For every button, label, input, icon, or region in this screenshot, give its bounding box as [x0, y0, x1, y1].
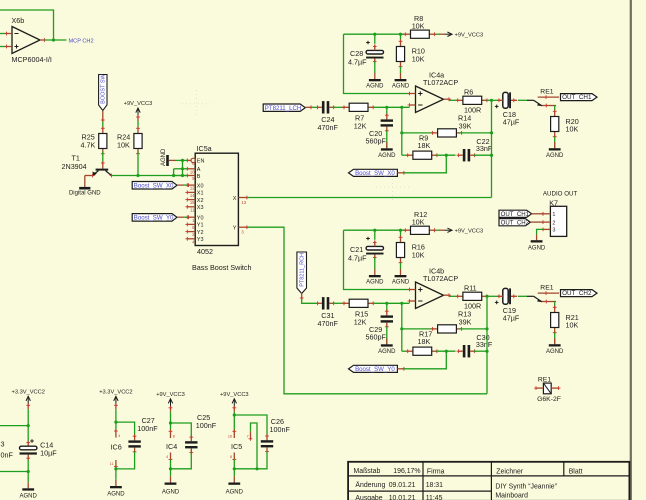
svg-text:560pF: 560pF — [366, 136, 387, 145]
svg-text:10µF: 10µF — [40, 448, 57, 457]
svg-text:10: 10 — [190, 169, 195, 174]
svg-text:Y3: Y3 — [197, 237, 204, 243]
svg-text:AGND: AGND — [378, 349, 396, 355]
svg-text:AGND: AGND — [107, 491, 125, 497]
svg-text:X1: X1 — [197, 191, 204, 197]
svg-text:100nF: 100nF — [137, 424, 158, 433]
svg-text:15: 15 — [190, 200, 195, 205]
svg-text:Y: Y — [233, 226, 237, 232]
svg-text:3: 3 — [552, 228, 555, 234]
svg-text:AGND: AGND — [20, 494, 38, 500]
svg-text:PT8211_RCH: PT8211_RCH — [300, 253, 306, 287]
svg-text:OUT_CH1: OUT_CH1 — [501, 211, 530, 218]
svg-text:MCP6004-I/I: MCP6004-I/I — [12, 55, 52, 64]
svg-text:2: 2 — [552, 220, 555, 226]
svg-text:+9V_VCC3: +9V_VCC3 — [455, 228, 484, 234]
svg-text:PT8211_LCH: PT8211_LCH — [265, 105, 301, 112]
svg-text:Bass Boost Switch: Bass Boost Switch — [192, 263, 252, 272]
svg-text:X0: X0 — [197, 183, 204, 189]
svg-text:0nF: 0nF — [1, 451, 14, 460]
svg-text:100nF: 100nF — [270, 425, 291, 434]
svg-text:X6b: X6b — [12, 16, 25, 25]
svg-text:DIY Synth “Jeannie”: DIY Synth “Jeannie” — [495, 484, 557, 491]
svg-text:G6K-2F: G6K-2F — [537, 396, 561, 403]
svg-text:R11: R11 — [464, 284, 477, 293]
svg-text:2N3904: 2N3904 — [62, 162, 87, 171]
svg-text:8: 8 — [173, 435, 175, 439]
svg-text:AGND: AGND — [378, 153, 396, 159]
svg-text:560pF: 560pF — [366, 332, 387, 341]
svg-text:12K: 12K — [354, 122, 367, 131]
svg-text:Änderung: Änderung — [355, 481, 385, 489]
svg-text:47µF: 47µF — [503, 118, 520, 127]
svg-text:Ausgabe: Ausgabe — [355, 495, 382, 500]
svg-text:09.01.21: 09.01.21 — [389, 482, 416, 489]
svg-text:Boost_SW_Y0: Boost_SW_Y0 — [134, 215, 174, 222]
svg-text:RE1: RE1 — [540, 284, 553, 291]
svg-text:+3.3V_VCC2: +3.3V_VCC2 — [99, 389, 132, 395]
svg-text:10K: 10K — [566, 321, 579, 330]
svg-text:AGND: AGND — [366, 280, 384, 286]
svg-text:Boost_SW_Y0: Boost_SW_Y0 — [355, 366, 395, 373]
svg-text:RE1: RE1 — [540, 88, 553, 95]
svg-text:AGND: AGND — [162, 490, 180, 496]
svg-text:18K: 18K — [418, 337, 431, 346]
svg-text:MCP CH2: MCP CH2 — [69, 38, 94, 44]
svg-text:R6: R6 — [464, 88, 473, 97]
svg-text:Mainboard: Mainboard — [495, 493, 528, 500]
svg-text:AGND: AGND — [392, 280, 410, 286]
svg-text:AGND: AGND — [392, 84, 410, 90]
svg-text:AGND: AGND — [226, 490, 244, 496]
svg-text:AGND: AGND — [546, 153, 564, 159]
svg-text:IC4: IC4 — [166, 442, 177, 451]
svg-text:12: 12 — [190, 186, 195, 191]
svg-text:10K: 10K — [412, 54, 425, 63]
svg-text:BOOST SW: BOOST SW — [101, 73, 107, 103]
svg-text:+9V_VCC3: +9V_VCC3 — [455, 33, 484, 39]
svg-text:A: A — [197, 167, 201, 173]
svg-text:12K: 12K — [354, 318, 367, 327]
svg-text:X: X — [233, 196, 237, 202]
svg-text:AGND: AGND — [528, 245, 546, 251]
svg-text:4052: 4052 — [197, 247, 213, 256]
svg-text:100R: 100R — [464, 302, 481, 311]
svg-text:10K: 10K — [117, 140, 130, 149]
svg-text:10K: 10K — [412, 250, 425, 259]
svg-text:4.7K: 4.7K — [81, 140, 96, 149]
svg-text:B: B — [197, 174, 201, 180]
svg-text:4: 4 — [166, 455, 168, 459]
svg-text:100nF: 100nF — [196, 421, 217, 430]
svg-text:AGND: AGND — [161, 148, 167, 166]
svg-text:X3: X3 — [197, 205, 204, 211]
svg-text:IC5a: IC5a — [197, 144, 212, 153]
svg-text:10K: 10K — [412, 218, 425, 227]
svg-text:TL072ACP: TL072ACP — [423, 78, 458, 87]
svg-text:OUT_CH2: OUT_CH2 — [562, 290, 592, 297]
svg-text:IC5: IC5 — [231, 442, 242, 451]
svg-text:Boost_SW_X0: Boost_SW_X0 — [355, 170, 395, 177]
svg-text:+9V_VCC3: +9V_VCC3 — [156, 392, 185, 398]
svg-text:10K: 10K — [412, 22, 425, 31]
svg-text:+9V_VCC3: +9V_VCC3 — [220, 392, 249, 398]
svg-text:Boost_SW_X0: Boost_SW_X0 — [134, 183, 174, 190]
svg-text:470nF: 470nF — [318, 319, 339, 328]
svg-text:10K: 10K — [566, 125, 579, 134]
svg-text:39K: 39K — [459, 121, 472, 130]
svg-text:AGND: AGND — [366, 84, 384, 90]
svg-text:Blatt: Blatt — [569, 468, 583, 475]
svg-text:TL072ACP: TL072ACP — [423, 274, 458, 283]
svg-text:AGND: AGND — [546, 349, 564, 355]
svg-text:Firma: Firma — [427, 468, 445, 475]
svg-text:100R: 100R — [464, 106, 481, 115]
svg-text:18:31: 18:31 — [426, 482, 443, 489]
svg-text:47µF: 47µF — [503, 314, 520, 323]
svg-text:3: 3 — [1, 439, 5, 448]
svg-text:7: 7 — [247, 435, 249, 439]
svg-text:470nF: 470nF — [318, 123, 339, 132]
svg-text:10.01.21: 10.01.21 — [389, 495, 416, 500]
svg-text:AUDIO OUT: AUDIO OUT — [543, 191, 578, 198]
svg-text:Maßstab: Maßstab — [354, 468, 381, 475]
svg-text:14: 14 — [190, 193, 195, 198]
svg-text:18K: 18K — [418, 141, 431, 150]
svg-text:39K: 39K — [459, 317, 472, 326]
svg-text:Zeichner: Zeichner — [496, 468, 524, 475]
svg-text:11: 11 — [110, 462, 114, 466]
svg-text:11: 11 — [190, 207, 195, 212]
svg-text:4.7µF: 4.7µF — [348, 57, 367, 66]
svg-text:4: 4 — [118, 434, 120, 438]
svg-text:RE1: RE1 — [538, 376, 551, 383]
svg-text:OUT_CH1: OUT_CH1 — [562, 94, 592, 101]
svg-text:196,17%: 196,17% — [393, 468, 420, 475]
svg-text:Y1: Y1 — [197, 223, 204, 229]
svg-text:Digital GND: Digital GND — [69, 190, 101, 196]
svg-text:11:45: 11:45 — [426, 495, 443, 500]
svg-text:4.7µF: 4.7µF — [348, 253, 367, 262]
svg-text:33nF: 33nF — [476, 340, 493, 349]
svg-text:Y2: Y2 — [197, 230, 204, 236]
svg-text:+3.3V_VCC2: +3.3V_VCC2 — [12, 389, 45, 395]
svg-text:+9V_VCC3: +9V_VCC3 — [124, 101, 153, 107]
svg-text:Y0: Y0 — [197, 216, 204, 222]
svg-text:8: 8 — [230, 455, 232, 459]
svg-text:13: 13 — [241, 200, 246, 205]
svg-text:33nF: 33nF — [476, 144, 493, 153]
svg-text:EN: EN — [197, 159, 205, 165]
svg-text:16: 16 — [228, 435, 232, 439]
svg-text:IC6: IC6 — [111, 443, 122, 452]
svg-text:1: 1 — [552, 212, 555, 218]
svg-text:OUT_CH2: OUT_CH2 — [501, 219, 530, 226]
svg-text:X2: X2 — [197, 198, 204, 204]
